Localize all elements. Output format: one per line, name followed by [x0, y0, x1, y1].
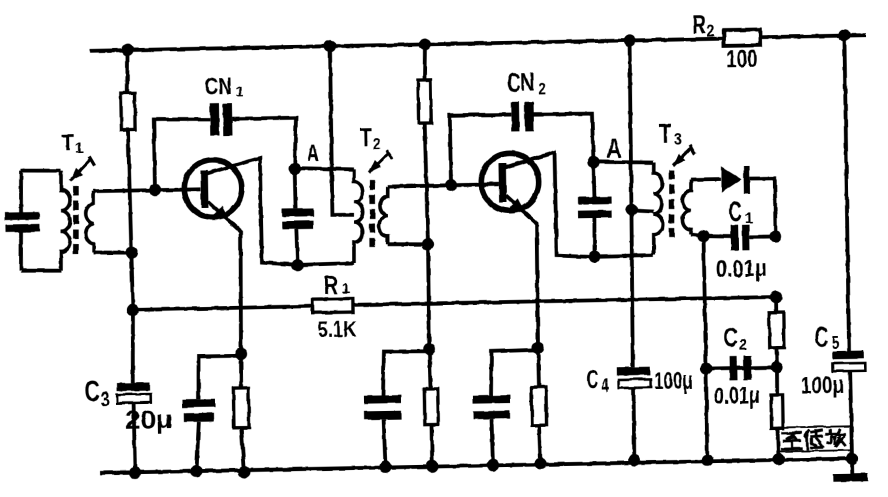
core: T2 ferrite (dashed)	[371, 180, 373, 248]
wire: Q2 emitter bypass to ground	[492, 419, 493, 465]
node: T2 secondary bottom junction	[422, 238, 434, 250]
label C4	[587, 366, 610, 398]
svg-text:C: C	[729, 196, 743, 228]
wire: Q1 emitter bypass branch	[198, 356, 242, 399]
wire: diode to right branch	[750, 178, 776, 236]
wire: stage-2 bias line down	[425, 123, 430, 349]
transistor Q2 base bar	[498, 163, 506, 202]
inductor: T2 secondary winding	[378, 187, 388, 245]
wire: tap to T3 primary	[631, 210, 654, 212]
label 5.1K	[317, 316, 357, 342]
capacitor CN2 right plate	[524, 102, 534, 132]
capacitor C5 + plate	[833, 351, 864, 360]
transistor Q2 body	[481, 153, 539, 211]
tuning arrow T2	[369, 150, 393, 172]
wire: bottom node to T2 primary bottom	[298, 263, 354, 265]
capacitor C3 - plate	[117, 394, 151, 403]
label C3	[84, 376, 109, 412]
node: C1 right junction	[769, 230, 781, 242]
node: top rail / stage-2 bias junction	[419, 38, 431, 50]
inductor: T1 secondary winding	[85, 191, 95, 252]
wire: Q2 emitter resistor lead	[536, 348, 541, 387]
wire: lower resistor to ground	[778, 428, 779, 459]
wire: +V top rail (left of R2)	[90, 39, 724, 51]
node: bottom rail right corner	[846, 452, 858, 464]
inductor: T1 primary winding	[59, 170, 71, 270]
svg-text:2: 2	[373, 134, 380, 153]
svg-text:3: 3	[100, 389, 109, 412]
wire: tuning cap to bottom node	[296, 229, 297, 266]
wire: CN2 left branch	[450, 114, 513, 185]
wire: +V feed to T2 primary tap	[330, 46, 354, 215]
svg-text:4: 4	[601, 375, 609, 397]
wire: T1 secondary top to Q1 base	[94, 189, 201, 191]
resistor: stage-2 bias dropper	[418, 80, 431, 123]
node: T2 primary bottom / Q1 collector	[291, 259, 303, 271]
wire: detector return to ground	[704, 236, 708, 460]
wire: Q2 emitter bypass branch	[490, 350, 538, 396]
svg-text:0.01μ: 0.01μ	[714, 382, 760, 410]
capacitor: tank tuning top plate	[5, 212, 40, 220]
node: T1 secondary bottom junction	[125, 246, 137, 258]
node: C3 ground junction	[129, 466, 141, 478]
node: Q2 base / CN2 junction	[445, 179, 457, 191]
capacitor C1 right plate	[742, 225, 750, 251]
wire: Q2 collector lead	[505, 152, 595, 259]
capacitor CN1 right plate	[223, 103, 233, 136]
output label box (to AF amp)	[778, 426, 850, 451]
svg-text:CN: CN	[204, 73, 232, 100]
core: T1 ferrite (dashed)	[75, 186, 77, 254]
svg-text:R: R	[692, 9, 706, 39]
wire: CN1 left branch	[154, 119, 211, 191]
svg-text:A: A	[307, 139, 319, 165]
node: C2 right junction	[771, 361, 783, 373]
capacitor: Q1 emitter bypass bottom plate	[184, 413, 214, 422]
core: T3 ferrite (dashed)	[670, 170, 672, 238]
label A (stage 2)	[606, 133, 622, 164]
label C5	[815, 322, 840, 354]
label 100u C4	[654, 367, 693, 395]
wire: tank top	[21, 170, 61, 171]
svg-text:C: C	[723, 322, 738, 353]
capacitor: stage-2 bias bypass bottom plate	[364, 411, 401, 420]
svg-text:C: C	[587, 366, 598, 394]
resistor: detector load lower	[771, 395, 783, 428]
wire: Q1 emitter resistor lead	[239, 354, 244, 388]
capacitor C5 - plate	[833, 363, 865, 371]
wire: divider resistor to ground	[430, 425, 435, 467]
svg-text:A: A	[606, 133, 622, 164]
svg-text:CN: CN	[507, 69, 535, 97]
svg-text:C: C	[84, 376, 100, 408]
wire: CN1 right branch	[232, 118, 297, 170]
node: Q1 emitter resistor ground junction	[238, 466, 250, 478]
tuning arrow T1	[70, 157, 95, 181]
node: Q2 emitter resistor ground junction	[534, 457, 546, 469]
label C2	[723, 322, 747, 355]
svg-text:100μ: 100μ	[801, 372, 844, 400]
wire: bias bypass cap to ground	[384, 419, 386, 466]
svg-text:5.1K: 5.1K	[317, 316, 357, 342]
resistor: Q2 emitter	[531, 387, 546, 425]
node: detector return ground junction	[701, 454, 713, 466]
inductor: T3 secondary winding	[682, 179, 692, 234]
svg-text:2: 2	[739, 335, 747, 354]
svg-text:0.01μ: 0.01μ	[716, 255, 767, 283]
label 100u C5	[801, 372, 844, 400]
wire: Q2 emitter lead	[506, 195, 539, 348]
node: top rail / C5 junction	[838, 29, 850, 41]
node A (stage 1)	[288, 163, 300, 175]
wire: node A to T2 primary top	[295, 167, 354, 170]
node: Q2 emitter junction	[532, 342, 544, 354]
svg-text:2: 2	[706, 21, 714, 40]
capacitor: T2 tank bottom plate	[282, 221, 313, 229]
inductor: T2 primary winding	[352, 169, 363, 263]
wire: stage-2 bias dropper from rail	[424, 44, 426, 80]
wire: Q1 collector lead	[207, 157, 298, 266]
diode D cathode bar	[743, 166, 750, 194]
resistor: stage-2 bias divider lower	[424, 389, 438, 425]
capacitor: Q2 emitter bypass top plate	[473, 395, 510, 404]
wire: ground bottom rail	[101, 459, 853, 473]
node: top rail / stage-1 bias junction	[121, 44, 133, 56]
capacitor: T3 tank bottom plate	[578, 210, 612, 218]
wire: node A down to tuning cap	[293, 169, 298, 209]
label 20u	[125, 404, 173, 435]
wire: divider lower resistor top lead	[775, 367, 780, 395]
label A (stage 1)	[307, 139, 319, 165]
node A (stage 2)	[587, 156, 599, 168]
label 0.01u C1	[716, 255, 767, 283]
svg-text:100: 100	[726, 45, 758, 74]
label 100 R2	[726, 45, 758, 74]
node: C2 left junction	[700, 362, 712, 374]
svg-text:R: R	[324, 272, 338, 300]
capacitor: Q2 emitter bypass bottom plate	[473, 411, 510, 420]
node: Q1 emitter junction	[235, 348, 247, 360]
capacitor C4 - plate	[619, 379, 652, 388]
svg-text:3: 3	[674, 129, 682, 148]
svg-text:T: T	[360, 122, 373, 152]
wire: C1 left lead	[704, 236, 731, 237]
wire: T1 secondary bottom to bias line	[94, 252, 132, 253]
node: T3 primary bottom / Q2 collector	[588, 250, 600, 262]
wire: C5 line from rail	[844, 35, 850, 351]
svg-text:100μ: 100μ	[654, 367, 693, 395]
node: bias bypass ground junction	[379, 461, 391, 473]
transistor Q1 body	[184, 159, 242, 217]
capacitor: tank tuning bottom plate	[6, 224, 40, 233]
svg-text:20μ: 20μ	[125, 404, 173, 435]
wire: +V feed line down to C4	[627, 40, 635, 367]
diode D (detector)	[721, 166, 742, 192]
wire: tank bottom	[21, 270, 61, 271]
tuning arrow T3	[673, 145, 695, 166]
wire: Q1 emitter resistor to ground	[241, 428, 244, 472]
resistor R2	[724, 30, 760, 46]
node: Q2 bypass ground junction	[487, 459, 499, 471]
wire: AGC line left of R1	[133, 306, 313, 310]
wire: C1 right lead	[750, 235, 776, 239]
capacitor CN2 left plate	[511, 102, 519, 132]
capacitor: stage-2 bias bypass top plate	[364, 395, 401, 404]
inductor: T3 primary winding	[652, 162, 664, 255]
wire: divider upper resistor top lead	[774, 297, 778, 313]
wire: node A2 down to tuning cap	[592, 162, 597, 197]
svg-text:5: 5	[831, 333, 839, 353]
node: AGC line / stage-1 bias junction	[127, 304, 139, 316]
capacitor C1 left plate	[731, 225, 739, 251]
svg-text:1: 1	[75, 139, 84, 156]
output label text (to AF amp)	[782, 430, 845, 449]
ground symbol bar	[833, 473, 868, 482]
svg-text:2: 2	[538, 79, 546, 98]
node: C4 ground junction	[628, 454, 640, 466]
wire: T3 secondary top to diode	[691, 177, 721, 181]
svg-text:1: 1	[236, 83, 244, 99]
node: divider resistor ground junction	[426, 460, 438, 472]
node: divider ground junction	[772, 453, 784, 465]
resistor R1	[312, 299, 353, 313]
wire: C4 to ground	[633, 387, 635, 460]
wire: T3 tuning cap to bottom node	[594, 218, 595, 257]
wire: tank left upper	[20, 171, 21, 213]
wire: Q1 emitter bypass to ground	[196, 422, 200, 471]
wire: stage-1 bias line down to C3	[128, 129, 134, 382]
svg-text:1: 1	[341, 280, 350, 297]
node: Q1 base / CN1 junction	[149, 184, 161, 196]
label 0.01u C2	[714, 382, 760, 410]
capacitor: T3 tank top plate	[578, 197, 612, 205]
capacitor: T2 tank top plate	[281, 208, 313, 216]
label C1	[729, 196, 753, 228]
capacitor C2 right plate	[743, 356, 751, 380]
svg-text:C: C	[815, 322, 829, 354]
svg-text:T: T	[659, 118, 673, 149]
wire: T2 secondary top to Q2 base	[388, 184, 499, 186]
wire: tank left lower	[20, 232, 21, 271]
resistor: Q1 emitter	[233, 388, 249, 428]
svg-text:T: T	[61, 130, 74, 157]
label R2	[692, 9, 715, 41]
wire: T3 secondary bottom to C1	[691, 234, 704, 236]
label T1	[61, 130, 83, 157]
wire: T2 secondary bottom to bias line	[388, 244, 428, 245]
transistor Q1 base bar	[200, 170, 208, 208]
wire: bias divider cap branch	[382, 351, 430, 396]
capacitor: Q1 emitter bypass top plate	[182, 399, 215, 408]
capacitor C3 + plate	[116, 383, 149, 392]
wire: upper resistor to C2 node	[775, 348, 779, 368]
wire: +V top rail (right of R2)	[760, 35, 866, 37]
capacitor CN1 left plate	[210, 103, 220, 136]
wire: ground stub	[850, 459, 854, 474]
label T3	[659, 118, 683, 149]
capacitor C2 left plate	[730, 356, 738, 380]
label CN1	[204, 73, 244, 101]
wire: AGC line right of R1	[353, 297, 776, 305]
wire: Q1 emitter lead	[208, 201, 243, 355]
node: Q1 bypass ground junction	[190, 465, 202, 477]
resistor: stage-1 bias dropper	[121, 93, 135, 130]
node: T3 tap junction	[625, 203, 637, 215]
wire: C5 to bottom rail corner	[850, 371, 852, 459]
label CN2	[507, 69, 546, 99]
node: top rail / T2 tap junction	[324, 40, 336, 52]
wire: node A2 to T3 primary top	[593, 161, 653, 164]
wire: bottom node to T3 primary bottom	[595, 255, 654, 256]
node: stage-2 bias divider junction	[423, 343, 435, 355]
capacitor C4 + plate	[617, 367, 650, 376]
wire: C3 to ground rail	[134, 403, 135, 473]
node: C1 left junction	[697, 230, 709, 242]
wire: CN2 right branch	[534, 113, 594, 163]
node: top rail / C4 feed junction	[623, 34, 635, 46]
wire: stage-1 bias dropper from rail	[127, 50, 129, 93]
arrowhead: Q1 emitter (NPN)	[214, 206, 230, 222]
svg-text:1: 1	[744, 210, 753, 227]
wire: Q2 emitter resistor to ground	[539, 425, 541, 463]
arrowhead: Q2 emitter (NPN)	[509, 198, 525, 214]
wire: bias divider lower resistor lead	[429, 349, 430, 389]
resistor: detector load upper	[769, 313, 784, 348]
label T2	[360, 122, 381, 153]
wire: C2 leads	[706, 367, 777, 368]
node: AGC takeoff junction	[770, 291, 782, 303]
label R1	[324, 272, 350, 300]
